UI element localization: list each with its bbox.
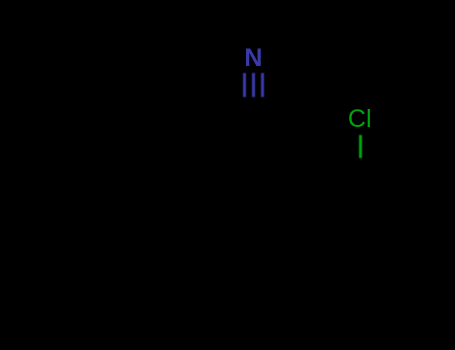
triple bond C#N, line 3 (right): [261, 73, 264, 97]
triple bond C#N, line 1 (left): [243, 73, 246, 97]
atom label Cl (chlorine): [348, 107, 372, 132]
triple bond C#N, line 2 (middle): [252, 73, 255, 97]
single bond C-Cl: [359, 135, 362, 159]
atom label N (nitrile nitrogen): [244, 46, 262, 71]
